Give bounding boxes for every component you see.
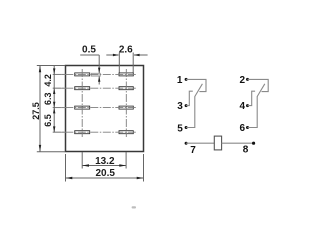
chain arrowhead below row2 [53, 88, 55, 94]
svg-text:2.6: 2.6 [119, 45, 133, 56]
pin 3 node dot [185, 104, 188, 107]
svg-text:6: 6 [240, 123, 246, 134]
svg-text:7: 7 [190, 145, 196, 156]
centerline row 3 [53, 107, 137, 109]
pin 6 wire [248, 96, 258, 127]
dimension 27.5 arrowheads [39, 66, 41, 73]
svg-text:20.5: 20.5 [95, 168, 115, 179]
pin 2 wire [248, 79, 269, 91]
svg-text:2: 2 [240, 75, 246, 86]
dimension 0.5 arrowheads [98, 68, 100, 74]
pad row 1 left [75, 73, 90, 76]
centerline row solid left stubs [53, 74, 66, 132]
pin 8 node dot [252, 142, 255, 145]
chain arrowhead above row1 [53, 68, 55, 74]
right contact moving arm [257, 84, 265, 97]
coil K1 [214, 136, 221, 150]
pad row 4 right [119, 131, 133, 134]
centerline row 4 [53, 131, 137, 133]
pad row 4 left [75, 131, 90, 134]
dimension 20.5 line [66, 154, 144, 182]
pad row 1 right [119, 73, 133, 76]
chain arrowhead above row4 [53, 126, 55, 132]
centerline right pad column [125, 69, 127, 137]
pad row 3 right [119, 106, 133, 109]
pad row 2 left [75, 87, 90, 90]
pin 1 wire [186, 79, 206, 91]
centerline left pad column [81, 69, 83, 137]
svg-text:6.5: 6.5 [43, 114, 53, 127]
chain arrowheads at row3 [53, 102, 55, 108]
svg-text:4: 4 [240, 101, 246, 112]
pin 5 wire [186, 96, 195, 127]
svg-text:4.2: 4.2 [43, 74, 53, 87]
coil right wire [222, 142, 254, 144]
svg-text:3: 3 [177, 101, 183, 112]
pin 3 fixed contact wire [186, 91, 193, 105]
centerline row 1 [53, 73, 137, 75]
dimension 20.5 arrowheads [66, 177, 73, 179]
stray mark artifact [132, 206, 136, 208]
relay body outline rectangle [66, 66, 144, 152]
svg-text:1: 1 [177, 75, 183, 86]
pin 4 fixed contact wire [248, 91, 256, 105]
coil left wire [186, 142, 214, 144]
svg-text:8: 8 [243, 145, 249, 156]
dimension 0.5 leader line [80, 55, 99, 85]
chain dimension line 4.2 / 6.3 / 6.5 [53, 66, 55, 133]
pin 4 node dot [246, 104, 249, 107]
svg-text:6.3: 6.3 [43, 93, 53, 106]
dimension 2.6 arrowheads [113, 54, 119, 56]
pin 6 node dot [246, 126, 249, 129]
pin 7 node dot [185, 142, 188, 145]
svg-text:0.5: 0.5 [82, 45, 96, 56]
pin 2 node dot [246, 78, 249, 81]
dimension 13.2 line [82, 152, 126, 169]
dimension 27.5 line [37, 66, 66, 152]
dimension 2.6 lines [106, 53, 147, 73]
pin 5 node dot [185, 126, 188, 129]
centerline row 2 [53, 87, 137, 89]
dimension 13.2 arrowheads [82, 164, 89, 166]
pad row 2 right [119, 87, 133, 90]
left contact moving arm [195, 84, 203, 97]
pin 1 node dot [185, 78, 188, 81]
svg-text:5: 5 [177, 124, 183, 135]
pad row 3 left [75, 106, 90, 109]
grey pad row 1 middle [91, 73, 100, 76]
